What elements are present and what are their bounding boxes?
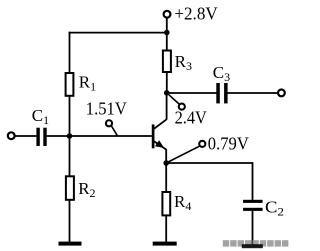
probe 1.51V lead bbox=[112, 126, 118, 136]
wire R1 bottom to base node bbox=[69, 96, 71, 177]
svg-text:2.4V: 2.4V bbox=[175, 108, 207, 128]
capacitor C2 plates bbox=[243, 200, 263, 211]
wire collector node to C3 bbox=[167, 92, 217, 94]
wire Vcc terminal stem bbox=[166, 18, 168, 52]
probe 1.51V circle bbox=[106, 120, 112, 126]
transistor Q1 emitter line bbox=[154, 141, 167, 150]
junction dot collector node bbox=[164, 90, 170, 96]
resistor R3 bbox=[163, 51, 171, 73]
wire input terminal to C1 bbox=[14, 135, 36, 137]
ground under R2 bbox=[59, 242, 82, 246]
wire left vertical Vcc-to-R1 bbox=[69, 32, 71, 74]
capacitor C3 plates bbox=[216, 83, 227, 103]
svg-text:+2.8V: +2.8V bbox=[174, 4, 217, 24]
probe 0.79V circle bbox=[199, 141, 205, 147]
capacitor C1 plates bbox=[36, 128, 46, 146]
terminal Vcc +2.8V bbox=[164, 11, 171, 18]
wire emitter node to C2 branch corner bbox=[166, 163, 252, 201]
wire base node to R2 handled above; wire R2 bottom to ground bbox=[69, 200, 71, 243]
junction dot top Vcc tee bbox=[164, 30, 170, 36]
wire collector diagonal into transistor bbox=[154, 119, 167, 129]
svg-text:0.79V: 0.79V bbox=[208, 134, 249, 154]
wire R4 bottom to ground bbox=[165, 215, 167, 242]
wire C3 to output terminal bbox=[228, 92, 279, 94]
junction dot emitter node bbox=[163, 160, 169, 166]
junction dot base node bbox=[67, 133, 73, 139]
resistor R1 bbox=[66, 73, 74, 96]
terminal output right bbox=[278, 90, 285, 97]
wire C2 bottom plate to ground bbox=[252, 211, 254, 246]
ground under C2 bbox=[242, 244, 263, 248]
wire collector node down to transistor bbox=[166, 93, 168, 120]
wire emitter vertical to emitter node bbox=[165, 149, 167, 163]
terminal input left bbox=[8, 132, 15, 139]
wire emitter node to R4 bbox=[165, 163, 167, 193]
transistor Q1 base bar bbox=[152, 124, 155, 148]
svg-text:1.51V: 1.51V bbox=[86, 99, 127, 119]
wire R3 bottom to collector node bbox=[166, 72, 168, 94]
resistor R4 bbox=[162, 192, 170, 215]
probe 2.4V circle bbox=[179, 104, 185, 110]
probe 0.79V lead bbox=[166, 146, 199, 163]
probe 2.4V lead bbox=[167, 93, 180, 105]
transistor Q1 emitter arrow bbox=[155, 140, 164, 148]
wire top horizontal from R1 branch to Vcc branch bbox=[69, 32, 167, 34]
watermark blocks bottom right bbox=[223, 240, 289, 246]
ground under R4 bbox=[153, 242, 177, 246]
wire C1 to base bbox=[47, 135, 152, 137]
resistor R2 bbox=[66, 176, 74, 200]
